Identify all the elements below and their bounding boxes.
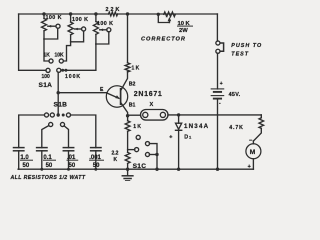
wire bottom bus xyxy=(18,168,253,170)
svg-text:PUSH TO: PUSH TO xyxy=(231,43,262,49)
svg-text:B1: B1 xyxy=(129,103,136,109)
svg-text:1K: 1K xyxy=(44,52,51,58)
ground xyxy=(127,169,129,175)
switch S1B row xyxy=(19,115,45,148)
svg-text:+: + xyxy=(169,134,172,140)
svg-text:TEST: TEST xyxy=(231,51,249,57)
svg-text:X: X xyxy=(150,102,154,108)
svg-text:CORRECTOR: CORRECTOR xyxy=(141,36,186,42)
wire pot3 down to S1A 100K contact xyxy=(65,44,96,70)
wire S1B to cap4 xyxy=(70,115,95,148)
switch S1C xyxy=(136,135,140,139)
svg-text:S1B: S1B xyxy=(54,101,68,108)
svg-text:1 K: 1 K xyxy=(132,66,140,72)
push button contacts xyxy=(216,41,220,45)
svg-text:100 K: 100 K xyxy=(97,21,113,27)
resistor 22K (top rail) xyxy=(109,12,118,16)
wire cap3 up xyxy=(64,126,68,148)
switch S1B second row contacts xyxy=(49,122,53,126)
transistor Q1 2N1671 xyxy=(106,86,127,107)
svg-text:S1C: S1C xyxy=(133,163,147,170)
capacitor C1 1.0 xyxy=(14,147,24,149)
svg-text:M: M xyxy=(250,149,256,156)
svg-text:1N34A: 1N34A xyxy=(184,123,209,130)
svg-text:+: + xyxy=(220,81,223,87)
wire pot1 to 1K contact xyxy=(44,39,49,61)
wire top rail right section xyxy=(118,13,218,15)
switch S1A contacts xyxy=(46,68,50,72)
svg-text:22K: 22K xyxy=(106,7,122,13)
svg-text:+: + xyxy=(248,164,251,170)
svg-text:100 K: 100 K xyxy=(46,15,62,21)
wire cap2 up xyxy=(42,126,49,148)
wire pot2 to 10K contact xyxy=(63,42,70,61)
wire top rail left section xyxy=(19,13,109,15)
svg-text:45V.: 45V. xyxy=(229,92,241,98)
svg-text:ALL RESISTORS 1/2 WATT: ALL RESISTORS 1/2 WATT xyxy=(10,175,86,181)
wire emitter bus xyxy=(58,92,107,94)
capacitor C2 0.1 xyxy=(37,147,47,149)
svg-text:4.7K: 4.7K xyxy=(229,125,244,131)
svg-text:50: 50 xyxy=(69,163,76,169)
meter M xyxy=(252,141,254,144)
node rail junctions xyxy=(42,12,160,16)
wire S1A arm down xyxy=(57,72,59,115)
diode D1 1N34A xyxy=(177,113,180,116)
svg-text:B2: B2 xyxy=(129,82,136,88)
resistor 1K (B1) xyxy=(125,121,130,132)
wire push button to battery xyxy=(217,53,219,89)
resistor 2.2K xyxy=(125,152,130,163)
wire B1 junction to socket X xyxy=(130,114,141,116)
wire B1 column xyxy=(127,116,129,121)
svg-text:1 K: 1 K xyxy=(133,124,141,130)
socket X xyxy=(141,110,169,121)
node cap bus junctions xyxy=(40,168,97,171)
svg-text:K: K xyxy=(114,157,118,163)
svg-text:100 K: 100 K xyxy=(72,17,88,23)
wire socket to right branch xyxy=(168,114,261,116)
svg-text:10K: 10K xyxy=(55,52,65,58)
svg-text:100: 100 xyxy=(42,74,51,80)
svg-text:100K: 100K xyxy=(65,74,81,80)
battery B1 45V xyxy=(211,88,224,90)
resistor 4.7K xyxy=(260,115,262,118)
wire left border xyxy=(19,14,46,70)
svg-text:50: 50 xyxy=(23,163,30,169)
resistor 1K (B2) xyxy=(127,14,129,63)
potentiometer R1 100K xyxy=(43,14,45,19)
svg-text:D: D xyxy=(184,135,188,141)
svg-text:2.2: 2.2 xyxy=(112,150,119,156)
capacitor C3 .01 xyxy=(63,147,73,149)
svg-text:2N1671: 2N1671 xyxy=(134,91,163,98)
svg-text:S1A: S1A xyxy=(39,82,53,89)
potentiometer R2 100K xyxy=(70,14,72,22)
wire right drop to push button xyxy=(216,14,218,41)
capacitor C4 .001 xyxy=(91,147,101,149)
svg-text:2W: 2W xyxy=(179,28,188,34)
svg-text:50: 50 xyxy=(46,163,53,169)
potentiometer R3 100K xyxy=(95,14,97,22)
potentiometer corrector 10K 2W xyxy=(164,12,175,17)
svg-text:50: 50 xyxy=(93,163,100,169)
